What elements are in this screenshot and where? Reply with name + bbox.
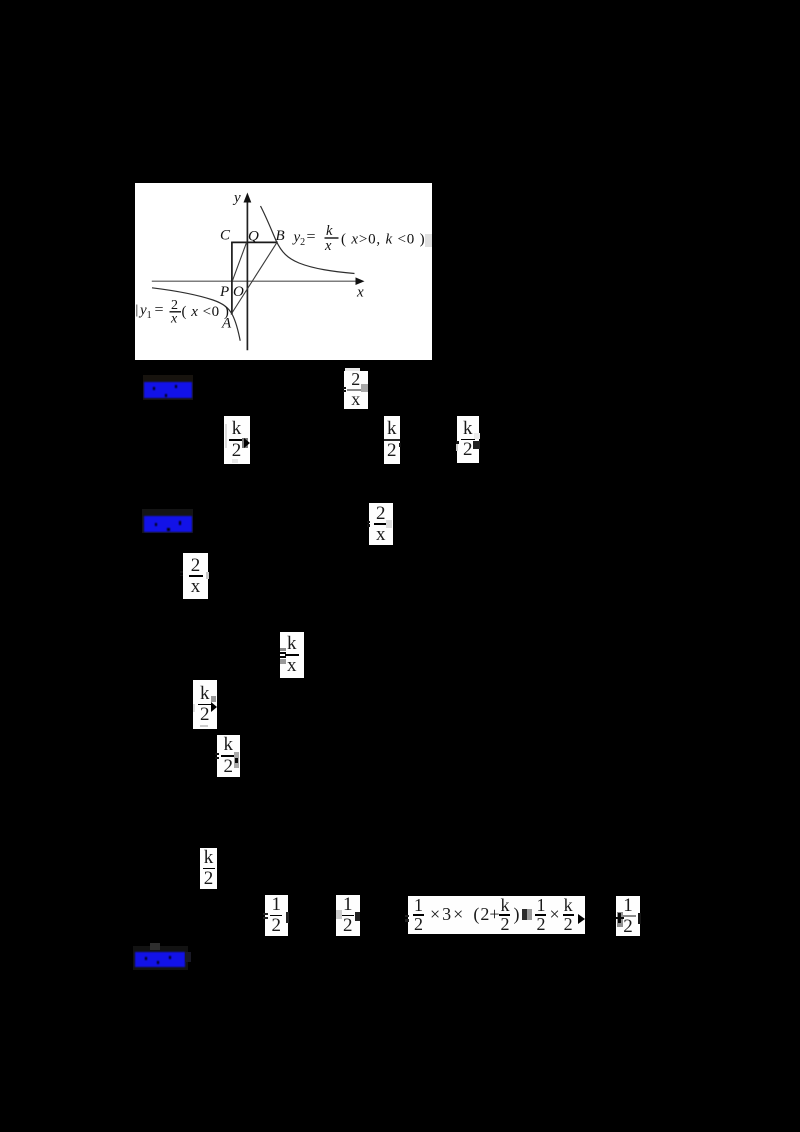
svg-text:k: k: [326, 223, 333, 239]
eq box 1/2 (second): [336, 895, 361, 936]
arrow right end of long box: [578, 914, 585, 924]
svg-text:x: x: [356, 285, 364, 301]
blue label 1: [144, 382, 192, 399]
mark paren right of last 1/2: [638, 913, 641, 925]
svg-text:C: C: [220, 228, 231, 244]
mark light strip above 2/x: [345, 368, 360, 371]
blue label 3 halo: [133, 946, 188, 970]
mark = left of 1/2: [263, 913, 268, 916]
svg-text:O: O: [233, 284, 244, 300]
svg-text:Q: Q: [248, 229, 259, 245]
mark dark right of second 1/2: [355, 912, 360, 921]
svg-text:( x>0, k <0 ): ( x>0, k <0 ): [341, 232, 425, 248]
mark comma right of fifth k/2: [235, 758, 238, 763]
eq box k/2 (first): [224, 416, 250, 465]
mark comma right of third 2/x: [206, 572, 209, 579]
svg-text:x: x: [324, 238, 332, 254]
mark gray block right edge: [242, 438, 248, 449]
rectangle top C to B: [231, 241, 277, 243]
eq box 1/2 (first): [265, 895, 289, 936]
light remnant square after formula: [425, 234, 432, 247]
mark = left of k/x: [280, 648, 286, 651]
mark = left of long box: [405, 915, 409, 918]
svg-text:P: P: [219, 284, 229, 300]
svg-text:B: B: [276, 228, 285, 244]
eq box 1/2 (last): [616, 896, 640, 936]
segment A to B: [231, 242, 278, 315]
svg-text:y: y: [232, 190, 241, 206]
blue label 2: [144, 516, 192, 532]
eq box 2/x: [344, 371, 368, 409]
eq box k/2 (second): [384, 416, 401, 465]
eq box k/2 (sixth): [200, 848, 217, 889]
eq box k/x: [280, 632, 305, 679]
hyperbola branch x>0: [261, 206, 355, 274]
mark gray block right of fifth k/2: [234, 752, 239, 767]
eq box 2/x (third): [183, 553, 208, 599]
mark light streak left edge of k/2: [225, 424, 228, 448]
x-axis: [152, 280, 357, 282]
y-axis: [246, 200, 248, 350]
mark right of 1/2: [286, 912, 289, 923]
eq box k/2 (third): [457, 416, 480, 464]
mark dark tick right of second k/2: [399, 443, 401, 447]
rectangle left side C to A: [231, 242, 233, 314]
mark = left of fifth k/2: [215, 753, 218, 755]
arrow after fourth k/2: [211, 702, 217, 712]
eq box k/2 (fifth): [217, 735, 241, 778]
eq long box 1/2*3*(2+k/2)=1/2*k/2: [408, 896, 585, 935]
mark light strip bottom of fourth k/2: [200, 725, 208, 728]
blue label 3: [135, 952, 185, 967]
segment P to Q: [232, 243, 246, 281]
blue label 2 halo: [142, 509, 193, 533]
mark light square bottom of k/2: [232, 459, 238, 463]
blue label 1 halo: [143, 375, 193, 400]
svg-text:=: =: [307, 229, 316, 246]
mark plus left of last 1/2: [616, 917, 624, 920]
eq box 2/x (second): [369, 503, 394, 545]
mark gray square right of 2/x: [361, 384, 368, 392]
hyperbola branch x<0: [152, 288, 240, 341]
mark = left of third 2/x: [180, 571, 183, 573]
svg-text:=: =: [155, 302, 164, 319]
mark dark block right of third k/2: [473, 441, 480, 449]
mark light square left of second 1/2: [336, 910, 342, 919]
mark gray smudge above label 3: [150, 943, 160, 950]
mark = left of 2/x: [343, 387, 346, 389]
mark dark notch left of third k/2: [456, 441, 459, 444]
svg-text:( x <0 ): ( x <0 ): [182, 304, 230, 320]
eq box k/2 (fourth): [193, 680, 218, 729]
mark = left of 2/x: [367, 521, 370, 523]
svg-text:x: x: [170, 312, 178, 327]
mark remnant right of label 3: [185, 952, 191, 962]
mark gray above arrow: [211, 696, 216, 702]
mark gray square right of 2/x: [386, 520, 392, 528]
formula y1=2/x (x<0): [136, 305, 138, 317]
mark gray block under plus: [617, 912, 623, 927]
graph figure white box: [135, 183, 432, 360]
arrow after k/2: [244, 438, 250, 448]
mark light square left edge of fourth k/2: [193, 704, 196, 712]
